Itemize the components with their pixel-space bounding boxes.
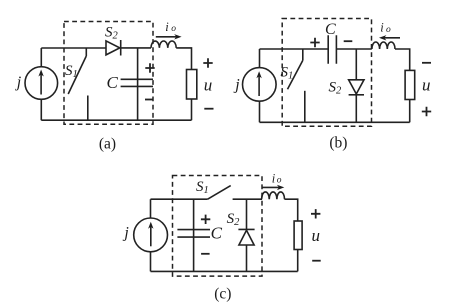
wire: circuit (b) right branch lower <box>409 100 411 123</box>
diode S2 (a) <box>106 40 121 56</box>
svg-text:o: o <box>171 24 176 34</box>
wire: circuit (b) top left segment <box>260 48 329 50</box>
diode S2 (c) <box>238 199 254 271</box>
svg-text:C: C <box>211 224 223 243</box>
svg-text:S2: S2 <box>329 80 343 97</box>
label - polarity of C (a) <box>145 99 153 101</box>
wire: circuit (b) top right exit + right branch upper <box>395 49 410 70</box>
capacitor C (b) <box>328 35 336 63</box>
svg-text:i: i <box>272 171 276 185</box>
svg-text:(a): (a) <box>99 136 116 153</box>
wire: circuit (a) top left segment <box>41 47 106 49</box>
inductor L (c) <box>262 192 285 199</box>
label + polarity of u (a) <box>203 58 212 67</box>
svg-text:(b): (b) <box>329 134 347 151</box>
label + polarity of u (c) <box>311 209 320 218</box>
current source J1 (b) <box>242 68 276 102</box>
arrow io (c) <box>262 185 284 190</box>
arrow io (b) <box>379 35 400 40</box>
svg-text:o: o <box>277 176 282 186</box>
svg-text:(c): (c) <box>214 286 231 303</box>
dashed box (a) <box>64 22 153 125</box>
svg-text:i: i <box>165 20 169 34</box>
switch S1 (c) <box>208 186 231 200</box>
resistor load u (b) <box>405 70 415 99</box>
label - polarity of C (b) <box>344 40 353 42</box>
switch S1 (b) <box>288 49 305 122</box>
label + polarity of C (b) <box>310 38 319 47</box>
dashed box (b) <box>282 19 371 127</box>
svg-text:u: u <box>312 226 321 245</box>
current source J1 (c) <box>134 218 168 252</box>
wire: circuit (a) right branch lower <box>191 99 193 120</box>
svg-text:C: C <box>325 21 336 38</box>
svg-text:i: i <box>380 21 384 35</box>
svg-text:C: C <box>107 73 119 92</box>
wire: circuit (c) bottom <box>151 270 298 272</box>
wire: circuit (b) top right segment <box>336 48 371 50</box>
wire: circuit (a) top middle segment <box>121 47 151 49</box>
svg-text:u: u <box>422 75 431 94</box>
wire: circuit (a) left branch <box>40 48 42 120</box>
svg-text:j: j <box>233 77 240 94</box>
svg-text:j: j <box>15 74 22 91</box>
wire: circuit (b) bottom <box>260 121 410 123</box>
dashed box (c) <box>173 176 263 277</box>
resistor load u (a) <box>187 70 197 100</box>
inductor L (b) <box>372 42 395 49</box>
wire: circuit (a) top right + right branch upper <box>176 48 191 69</box>
current source J1 (a) <box>25 67 58 100</box>
wire: circuit (b) left branch <box>259 49 261 122</box>
label + polarity of C (c) <box>201 215 210 224</box>
svg-text:u: u <box>204 76 213 95</box>
label + polarity of u (b) <box>422 107 431 116</box>
inductor L (a) <box>151 41 176 48</box>
svg-text:S1: S1 <box>65 63 78 80</box>
label - polarity of u (b) <box>422 62 431 64</box>
svg-text:S2: S2 <box>227 211 241 228</box>
svg-text:S1: S1 <box>196 179 209 196</box>
diode S2 (b) <box>349 49 364 122</box>
label - polarity of u (a) <box>204 108 213 110</box>
capacitor C (c) <box>177 199 210 271</box>
svg-text:j: j <box>122 225 129 242</box>
svg-text:S2: S2 <box>105 25 119 42</box>
arrow io (a) <box>156 34 182 39</box>
capacitor C (a) <box>121 48 153 120</box>
wire: circuit (c) top left segment <box>151 198 208 200</box>
label - polarity of C (c) <box>201 253 210 255</box>
wire: circuit (c) top middle segment <box>233 198 262 200</box>
svg-text:o: o <box>386 25 391 35</box>
wire: circuit (c) top right + right branch upper <box>285 199 298 221</box>
wire: circuit (c) left branch <box>150 199 152 271</box>
label + polarity of C (a) <box>145 63 154 72</box>
wire: circuit (a) bottom <box>41 119 191 121</box>
wire: circuit (c) right branch lower <box>297 250 299 272</box>
label - polarity of u (c) <box>312 260 321 262</box>
switch S1 (a) <box>68 48 88 120</box>
resistor load u (c) <box>294 221 302 250</box>
